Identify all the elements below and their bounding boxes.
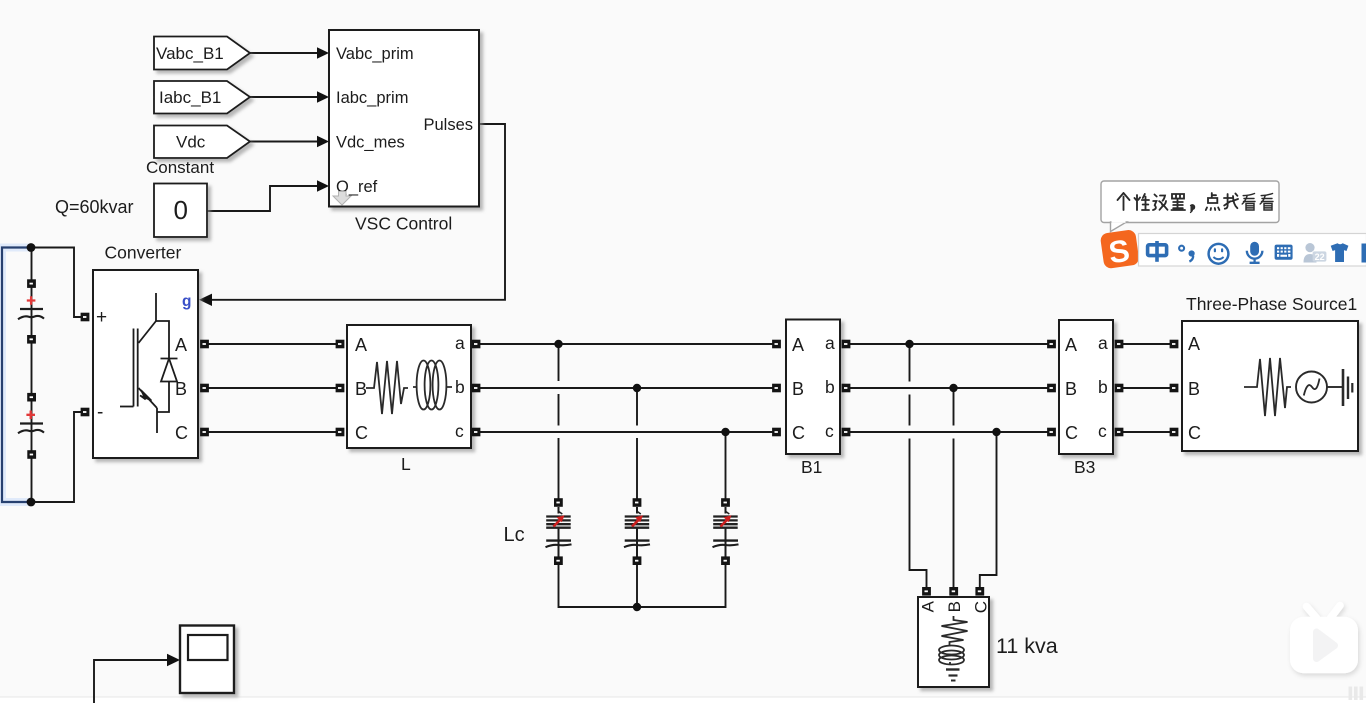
toolbar icon punctuation <box>1179 246 1195 262</box>
sogou IME logo <box>1100 229 1140 271</box>
port squares L block <box>336 340 481 437</box>
wire row A B1 to B3 <box>846 343 1051 345</box>
constant block Q ref 0 <box>154 184 207 238</box>
toolbar icon keyboard <box>1275 245 1293 260</box>
wire row A converter to L <box>205 343 340 345</box>
wire DC+ to converter <box>31 248 81 318</box>
svg-text:A: A <box>1065 335 1077 355</box>
svg-text:a: a <box>825 333 835 353</box>
wire Constant to Q_ref <box>207 186 318 211</box>
AC source circle inside source <box>1296 372 1342 403</box>
svg-text:Constant: Constant <box>146 158 214 177</box>
port squares DC sources <box>27 279 36 459</box>
svg-text:C: C <box>1188 423 1201 443</box>
svg-text:a: a <box>455 333 465 353</box>
three-phase source block <box>1182 321 1358 451</box>
svg-text:b: b <box>1098 377 1108 397</box>
svg-text:B: B <box>1188 379 1200 399</box>
SECTION: arrowheads <box>167 47 329 666</box>
svg-text:Vabc_prim: Vabc_prim <box>336 45 414 63</box>
wire Vabc_B1 to VSC <box>250 52 318 54</box>
IME toolbar strip <box>1139 234 1366 267</box>
inductor coil inside L <box>413 361 452 410</box>
wire DC bus selected (blue) <box>2 248 31 503</box>
wire row A B3 to source <box>1119 343 1174 345</box>
toolbar icon microphone <box>1247 242 1263 263</box>
bilibili play triangle <box>1317 632 1335 659</box>
node DC+ junction <box>27 243 36 252</box>
svg-text:Vdc: Vdc <box>176 133 206 152</box>
svg-text:Iabc_prim: Iabc_prim <box>336 89 408 107</box>
tooltip bubble <box>1101 181 1279 232</box>
toolbar icon user 22 <box>1304 243 1327 263</box>
wire Lc bottom bus <box>559 564 726 607</box>
svg-text:22: 22 <box>1315 252 1325 262</box>
resistor inside 11 kva (rotated) <box>942 616 968 645</box>
svg-text:C: C <box>972 601 991 613</box>
svg-text:Lc: Lc <box>504 524 525 546</box>
measurement block B1 <box>786 320 840 455</box>
svg-text:C: C <box>1065 423 1078 443</box>
inductor coil inside 11 kva (rotated) <box>939 646 964 666</box>
SECTION: wires <box>2 53 1174 703</box>
svg-text:L: L <box>401 454 411 474</box>
svg-text:Converter: Converter <box>105 243 182 263</box>
node DC- junction <box>27 498 36 507</box>
from tag Vdc <box>154 126 250 159</box>
wire selected DC bus highlight halo <box>2 248 31 503</box>
resistor inside source <box>1244 358 1291 416</box>
gray cursor arrow under Q_ref <box>333 192 351 206</box>
node row A transformer tap <box>905 340 913 348</box>
faint watermark bars bottom right <box>1349 687 1364 701</box>
wire DC- to converter <box>31 412 81 502</box>
svg-text:Three-Phase Source1: Three-Phase Source1 <box>1186 294 1357 314</box>
svg-text:A: A <box>355 335 367 355</box>
svg-text:B: B <box>355 379 367 399</box>
svg-text:B: B <box>945 601 964 612</box>
node Lc bottom bus junction <box>633 603 641 611</box>
svg-text:C: C <box>175 423 188 443</box>
transistor IGBT inside converter <box>120 293 169 433</box>
svg-text:b: b <box>825 377 835 397</box>
svg-text:A: A <box>792 335 804 355</box>
svg-text:C: C <box>355 423 368 443</box>
port squares transformer <box>922 587 984 596</box>
capacitor branch Lc phase C <box>713 507 739 557</box>
wire Pulses feedback to converter g <box>212 124 505 300</box>
wire row C B3 to source <box>1119 431 1174 433</box>
svg-text:-: - <box>97 402 103 423</box>
three-phase inductor block L <box>347 325 471 448</box>
svg-text:C: C <box>792 423 805 443</box>
svg-text:B1: B1 <box>801 457 822 477</box>
wire row B converter to L <box>205 387 340 389</box>
arrow into scope <box>167 654 180 667</box>
svg-text:Q=60kvar: Q=60kvar <box>55 197 134 217</box>
SECTION: junction dots <box>27 243 1001 611</box>
arrow into Q_ref <box>317 180 329 192</box>
from tag Iabc_B1 <box>154 81 250 114</box>
DC source battery 1 <box>18 296 44 319</box>
tooltip text (CJK strokes) <box>1118 193 1274 213</box>
toolbar icon partial right <box>1362 244 1366 263</box>
subsystem VSC Control <box>329 30 479 207</box>
node row B Lc tap <box>633 384 641 392</box>
DC source battery 2 <box>18 411 44 434</box>
diode antiparallel inside converter <box>161 359 178 382</box>
svg-text:c: c <box>825 421 834 441</box>
ground symbol inside source <box>1343 369 1352 406</box>
port squares source <box>1170 340 1179 437</box>
svg-text:VSC Control: VSC Control <box>355 214 452 234</box>
svg-text:Vabc_B1: Vabc_B1 <box>156 44 224 63</box>
wire Iabc_B1 to VSC <box>250 96 318 98</box>
svg-text:A: A <box>175 335 187 355</box>
svg-text:B3: B3 <box>1074 457 1095 477</box>
wire row C B1 to B3 <box>846 431 1051 433</box>
wire row C L to B1 <box>476 431 776 433</box>
wire Lc branch 3 drop <box>725 432 727 499</box>
from tag Vabc_B1 <box>154 37 250 70</box>
toolbar icon t-shirt <box>1331 243 1349 262</box>
wire battery chain vertical <box>31 248 33 503</box>
toolbar icon smiley <box>1209 244 1229 264</box>
wire row B B1 to B3 <box>846 387 1051 389</box>
converter block <box>93 270 198 458</box>
wire row B B3 to source <box>1119 387 1174 389</box>
svg-text:Pulses: Pulses <box>423 116 473 134</box>
svg-text:0: 0 <box>174 195 188 225</box>
wire row A L to B1 <box>476 343 776 345</box>
wire row B L to B1 <box>476 387 776 389</box>
svg-text:Iabc_B1: Iabc_B1 <box>159 88 221 107</box>
port squares B1 <box>772 340 850 437</box>
node row C Lc tap <box>721 428 729 436</box>
port squares B3 <box>1047 340 1123 437</box>
svg-text:a: a <box>1098 333 1108 353</box>
wire transformer phase B drop <box>953 388 955 588</box>
wire transformer phase A drop <box>910 344 927 588</box>
capacitor branch Lc phase A <box>546 507 572 557</box>
svg-text:g: g <box>182 293 191 310</box>
bottom video strip <box>0 697 1366 703</box>
svg-text:c: c <box>1098 421 1107 441</box>
svg-text:B: B <box>1065 379 1077 399</box>
svg-text:A: A <box>919 600 938 612</box>
node row A Lc tap <box>554 340 562 348</box>
wire Vdc to VSC <box>250 141 318 143</box>
bilibili play watermark <box>1290 606 1358 674</box>
node row B transformer tap <box>949 384 957 392</box>
wire scope input <box>94 660 170 703</box>
svg-text:A: A <box>1188 334 1200 354</box>
port squares converter <box>81 313 209 437</box>
arrow into converter g <box>199 294 212 306</box>
capacitor branch Lc phase B <box>624 507 650 557</box>
svg-text:c: c <box>455 421 464 441</box>
wire Lc branch 1 drop <box>558 344 560 499</box>
ground inside 11 kva <box>946 670 960 681</box>
wire transformer phase C drop <box>980 432 997 588</box>
scope block <box>180 626 234 694</box>
node row C transformer tap <box>992 428 1000 436</box>
wire Lc branch 2 drop <box>636 388 638 499</box>
svg-text:b: b <box>455 377 465 397</box>
svg-text:B: B <box>792 379 804 399</box>
toolbar icon zhong <box>1148 241 1167 262</box>
svg-text:Vdc_mes: Vdc_mes <box>336 134 405 152</box>
arrow into Iabc_prim <box>317 91 329 103</box>
port squares Lc branches <box>554 498 730 565</box>
resistor inside L <box>366 361 408 414</box>
wire row C converter to L <box>205 431 340 433</box>
svg-text:11 kva: 11 kva <box>996 634 1058 658</box>
IGBT emitter arrow <box>140 390 152 401</box>
svg-text:+: + <box>96 307 107 328</box>
transformer block 11 kva <box>918 597 991 687</box>
measurement block B3 <box>1059 320 1113 454</box>
arrow into Vabc_prim <box>317 47 329 59</box>
arrow into Vdc_mes <box>317 136 329 148</box>
